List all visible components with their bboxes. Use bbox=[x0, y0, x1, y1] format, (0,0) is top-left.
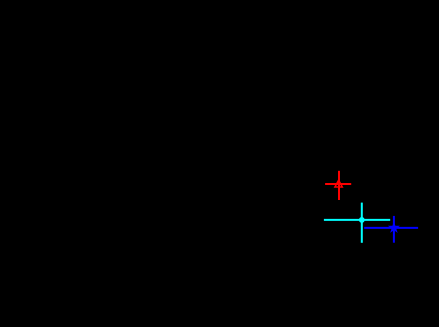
blue data point: vertical error bar bbox=[393, 216, 395, 243]
red data point: horizontal error bar bbox=[325, 183, 351, 185]
blue data point: horizontal error bar bbox=[364, 227, 418, 229]
red data point: vertical error bar bbox=[338, 171, 340, 200]
cyan data point: horizontal error bar bbox=[324, 219, 390, 221]
red data point: open triangle marker bbox=[335, 180, 342, 187]
blue data point: filled star marker bbox=[389, 223, 398, 232]
cyan data point: vertical error bar bbox=[361, 203, 363, 243]
cyan data point: filled circle marker bbox=[359, 217, 365, 223]
